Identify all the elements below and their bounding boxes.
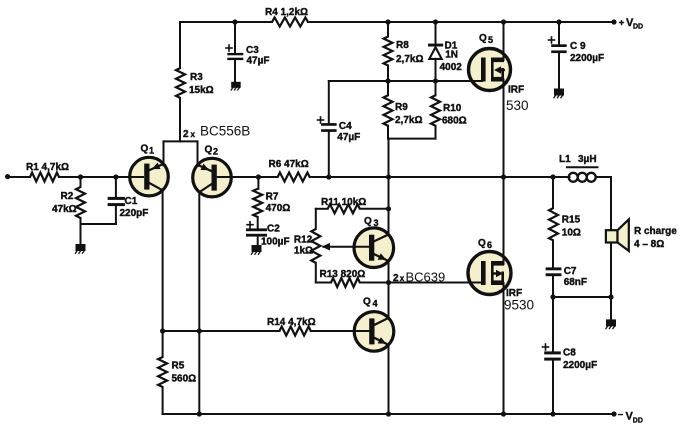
- svg-text:R11 10kΩ: R11 10kΩ: [321, 197, 366, 208]
- svg-text:10Ω: 10Ω: [562, 228, 581, 239]
- svg-text:Q: Q: [363, 297, 371, 308]
- svg-text:4 – 8Ω: 4 – 8Ω: [634, 239, 664, 250]
- svg-text:+: +: [619, 17, 625, 28]
- svg-text:680Ω: 680Ω: [442, 116, 467, 127]
- svg-text:2200µF: 2200µF: [570, 53, 604, 64]
- svg-text:2,7kΩ: 2,7kΩ: [395, 115, 422, 126]
- svg-text:–: –: [618, 409, 623, 420]
- svg-text:x: x: [400, 274, 405, 283]
- svg-text:BC639: BC639: [406, 270, 446, 285]
- svg-text:x: x: [191, 130, 196, 139]
- svg-text:Q: Q: [478, 238, 486, 249]
- svg-text:1N: 1N: [445, 50, 458, 61]
- svg-text:220pF: 220pF: [120, 208, 149, 219]
- svg-text:C 9: C 9: [570, 41, 586, 52]
- svg-text:L1: L1: [559, 154, 571, 165]
- svg-text:2200µF: 2200µF: [563, 360, 597, 371]
- svg-text:R5: R5: [172, 361, 185, 372]
- svg-text:68nF: 68nF: [564, 277, 587, 288]
- svg-text:2: 2: [183, 129, 189, 140]
- svg-text:2: 2: [213, 147, 218, 157]
- svg-text:560Ω: 560Ω: [172, 374, 197, 385]
- svg-text:530: 530: [506, 98, 529, 113]
- svg-text:47µF: 47µF: [247, 56, 270, 67]
- svg-text:Q: Q: [479, 33, 487, 44]
- svg-text:C4: C4: [339, 121, 352, 132]
- svg-text:DD: DD: [633, 417, 643, 424]
- svg-text:R charge: R charge: [634, 226, 677, 237]
- svg-text:C2: C2: [267, 224, 280, 235]
- svg-text:R3: R3: [190, 72, 203, 83]
- svg-text:R8: R8: [396, 40, 409, 51]
- svg-text:1: 1: [149, 146, 154, 156]
- svg-text:2,7kΩ: 2,7kΩ: [396, 54, 423, 65]
- svg-text:C8: C8: [563, 348, 576, 359]
- svg-text:9530: 9530: [504, 298, 534, 313]
- svg-text:R4 1,2kΩ: R4 1,2kΩ: [265, 7, 308, 18]
- svg-text:47kΩ: 47kΩ: [52, 204, 77, 215]
- svg-text:4002: 4002: [440, 62, 463, 73]
- svg-text:5: 5: [488, 35, 493, 45]
- svg-text:1kΩ: 1kΩ: [294, 246, 313, 257]
- svg-text:6: 6: [487, 240, 492, 250]
- svg-text:C3: C3: [246, 45, 259, 56]
- svg-text:DD: DD: [633, 24, 643, 31]
- svg-text:IRF: IRF: [508, 85, 524, 96]
- svg-text:4: 4: [373, 299, 378, 309]
- svg-text:15kΩ: 15kΩ: [189, 85, 214, 96]
- svg-text:BC556B: BC556B: [200, 124, 250, 139]
- svg-text:R2: R2: [61, 191, 74, 202]
- svg-text:Q: Q: [364, 216, 372, 227]
- svg-text:100µF: 100µF: [261, 237, 290, 248]
- svg-text:C1: C1: [125, 196, 138, 207]
- svg-text:R10: R10: [443, 103, 462, 114]
- svg-text:R9: R9: [395, 102, 408, 113]
- svg-text:R1 4,7kΩ: R1 4,7kΩ: [26, 162, 69, 173]
- svg-text:R13 820Ω: R13 820Ω: [320, 269, 366, 280]
- svg-text:470Ω: 470Ω: [266, 203, 291, 214]
- svg-text:C7: C7: [564, 266, 577, 277]
- svg-text:R6 47kΩ: R6 47kΩ: [269, 159, 309, 170]
- svg-text:Q: Q: [141, 144, 149, 155]
- svg-text:47µF: 47µF: [337, 132, 360, 143]
- svg-text:2: 2: [393, 273, 399, 284]
- svg-text:3µH: 3µH: [578, 154, 597, 165]
- svg-text:R7: R7: [266, 192, 279, 203]
- svg-text:R12: R12: [294, 235, 313, 246]
- svg-text:R15: R15: [562, 215, 581, 226]
- svg-text:3: 3: [374, 218, 379, 228]
- svg-text:Q: Q: [205, 145, 213, 156]
- svg-text:R14 4,7kΩ: R14 4,7kΩ: [267, 317, 316, 328]
